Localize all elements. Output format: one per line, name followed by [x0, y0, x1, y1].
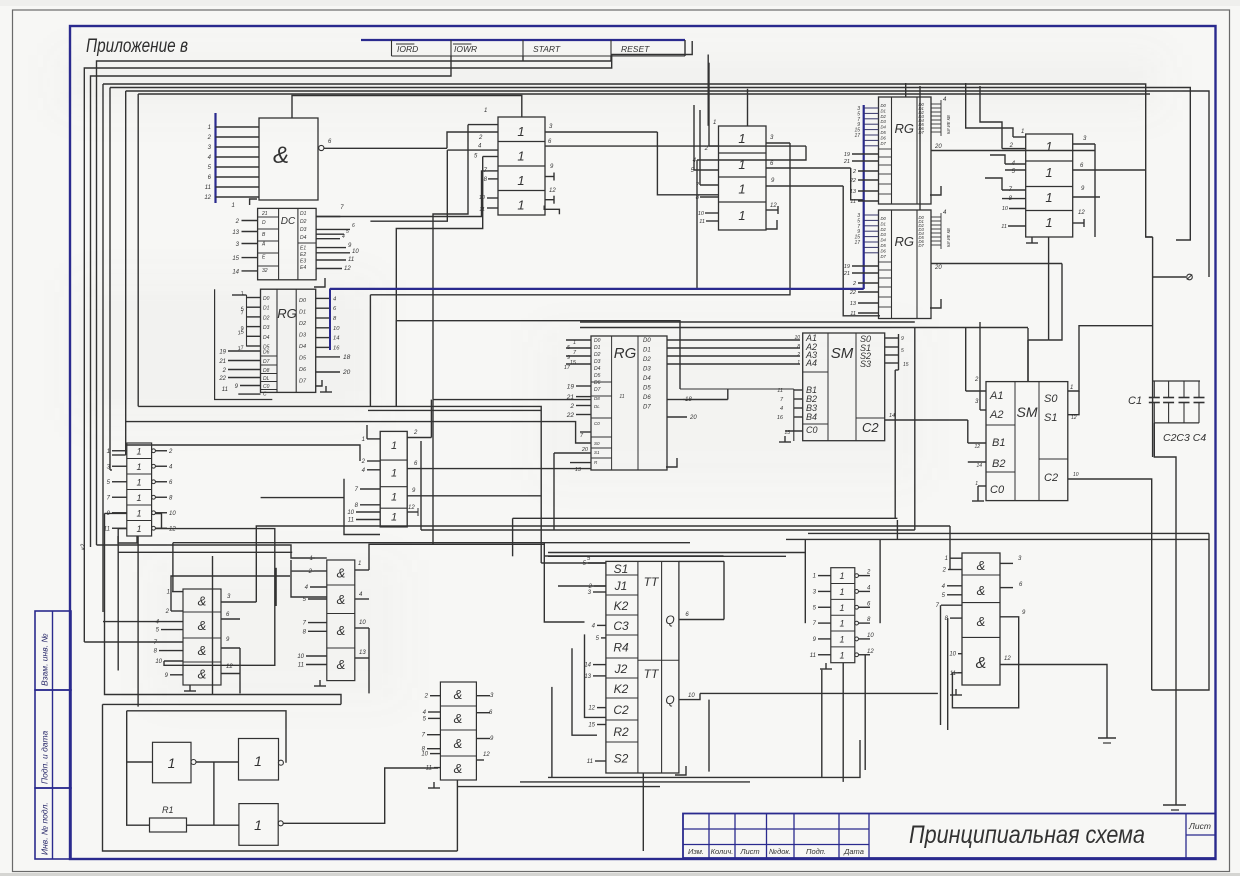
svg-text:RG: RG	[894, 234, 914, 249]
svg-text:&: &	[977, 583, 986, 598]
svg-text:17: 17	[854, 240, 860, 246]
svg-text:15: 15	[903, 362, 909, 368]
svg-text:Q: Q	[665, 693, 674, 707]
svg-text:2: 2	[361, 459, 366, 465]
svg-text:&: &	[337, 623, 346, 638]
svg-text:START: START	[533, 44, 561, 54]
svg-text:21: 21	[843, 271, 850, 277]
svg-text:1: 1	[362, 437, 365, 443]
svg-text:1: 1	[107, 449, 110, 455]
svg-text:E4: E4	[300, 265, 306, 271]
svg-text:2: 2	[413, 430, 418, 436]
svg-text:&: &	[198, 667, 207, 682]
svg-text:SM: SM	[831, 345, 854, 362]
svg-text:B2: B2	[992, 458, 1005, 470]
svg-text:D0: D0	[594, 338, 601, 344]
svg-text:K2: K2	[614, 599, 629, 613]
svg-text:2: 2	[165, 609, 170, 615]
svg-text:D2: D2	[300, 219, 307, 225]
svg-text:C: C	[263, 392, 267, 398]
svg-text:19: 19	[844, 152, 850, 158]
svg-text:12: 12	[344, 266, 351, 272]
svg-text:17: 17	[564, 365, 571, 371]
svg-text:13: 13	[584, 674, 591, 680]
svg-text:20: 20	[581, 447, 589, 453]
svg-text:14: 14	[976, 463, 982, 469]
svg-text:2: 2	[1009, 143, 1014, 149]
svg-text:к2: к2	[81, 543, 87, 550]
svg-text:10: 10	[688, 693, 695, 699]
svg-text:DL: DL	[594, 404, 600, 409]
svg-text:1: 1	[391, 440, 397, 452]
svg-text:1: 1	[839, 619, 844, 629]
svg-text:D8: D8	[594, 396, 600, 401]
svg-text:2: 2	[308, 569, 313, 575]
svg-text:J2: J2	[614, 662, 628, 676]
svg-text:B4: B4	[806, 412, 817, 422]
svg-text:1: 1	[484, 108, 487, 114]
svg-text:D3: D3	[594, 359, 601, 365]
svg-text:1: 1	[517, 198, 524, 213]
svg-text:32: 32	[262, 268, 268, 274]
svg-text:D: D	[262, 220, 266, 226]
svg-text:&: &	[198, 618, 207, 633]
svg-text:D7: D7	[299, 379, 307, 385]
svg-text:D4: D4	[594, 366, 601, 372]
svg-text:D2: D2	[594, 352, 601, 358]
svg-text:D6: D6	[263, 350, 270, 356]
svg-text:1: 1	[945, 556, 948, 562]
svg-text:&: &	[454, 761, 463, 776]
svg-text:D1: D1	[299, 310, 306, 316]
svg-text:2: 2	[424, 694, 429, 700]
svg-text:Приложение в: Приложение в	[86, 36, 188, 57]
svg-text:C0: C0	[990, 484, 1005, 496]
svg-text:2: 2	[796, 352, 800, 358]
svg-text:20: 20	[934, 144, 942, 150]
svg-text:1: 1	[839, 634, 844, 644]
svg-text:D5: D5	[594, 373, 601, 379]
svg-text:&: &	[337, 657, 346, 672]
svg-text:D0: D0	[881, 216, 887, 221]
svg-text:11: 11	[699, 219, 705, 225]
svg-text:D4: D4	[299, 344, 306, 350]
svg-text:D1: D1	[881, 221, 886, 226]
svg-text:TT: TT	[644, 575, 660, 589]
svg-text:1: 1	[839, 603, 844, 613]
svg-text:11: 11	[298, 663, 304, 669]
svg-text:21: 21	[843, 159, 850, 165]
svg-text:D6: D6	[881, 135, 887, 140]
svg-text:1: 1	[797, 360, 800, 366]
svg-text:12: 12	[226, 664, 233, 670]
svg-text:2: 2	[222, 368, 227, 374]
svg-text:1: 1	[136, 462, 141, 472]
svg-text:&: &	[454, 687, 463, 702]
svg-text:D7: D7	[881, 254, 887, 259]
svg-text:18: 18	[343, 354, 351, 361]
svg-text:10: 10	[421, 752, 428, 758]
svg-text:2: 2	[852, 281, 856, 287]
svg-text:1: 1	[1045, 165, 1052, 180]
svg-text:1: 1	[391, 492, 397, 504]
svg-text:D4: D4	[263, 335, 270, 341]
svg-text:16: 16	[333, 345, 340, 351]
svg-text:20: 20	[934, 265, 942, 271]
svg-text:10: 10	[359, 620, 366, 626]
svg-text:№док.: №док.	[769, 847, 791, 856]
svg-text:IORD: IORD	[397, 44, 418, 54]
svg-text:D4: D4	[300, 235, 307, 241]
svg-text:E2: E2	[300, 252, 306, 258]
svg-text:Лист: Лист	[1188, 821, 1211, 831]
svg-text:22: 22	[849, 290, 856, 296]
svg-text:12: 12	[408, 505, 415, 511]
svg-text:A2: A2	[989, 409, 1003, 421]
svg-text:4: 4	[780, 406, 783, 412]
svg-text:10: 10	[297, 654, 304, 660]
svg-text:1: 1	[391, 468, 397, 480]
svg-text:22: 22	[566, 412, 575, 419]
svg-text:1: 1	[232, 203, 235, 209]
svg-text:D2: D2	[263, 315, 270, 321]
svg-text:Подп. и дата: Подп. и дата	[40, 731, 50, 784]
svg-text:11: 11	[587, 759, 593, 765]
svg-text:9: 9	[901, 336, 904, 342]
svg-text:D3: D3	[881, 119, 887, 124]
svg-text:13: 13	[232, 230, 239, 236]
svg-text:D4: D4	[643, 376, 651, 382]
svg-text:D1: D1	[594, 345, 601, 351]
svg-text:R1: R1	[162, 805, 174, 815]
svg-text:Колич.: Колич.	[711, 847, 734, 856]
svg-text:19: 19	[844, 264, 850, 270]
svg-text:12: 12	[549, 188, 556, 194]
svg-text:1: 1	[136, 477, 141, 487]
svg-text:19: 19	[219, 350, 226, 356]
svg-text:17: 17	[854, 133, 860, 139]
svg-text:5: 5	[346, 229, 349, 235]
svg-text:10: 10	[479, 195, 486, 201]
svg-text:1: 1	[813, 574, 816, 580]
svg-text:D6: D6	[299, 367, 307, 373]
svg-text:C2: C2	[613, 703, 629, 717]
svg-text:B1: B1	[992, 437, 1005, 449]
svg-text:E3: E3	[300, 259, 306, 265]
svg-text:E1: E1	[300, 246, 306, 252]
svg-text:1: 1	[738, 131, 745, 146]
svg-text:C0: C0	[806, 425, 818, 435]
svg-text:R2: R2	[613, 725, 629, 739]
svg-text:2: 2	[235, 219, 240, 225]
svg-text:&: &	[977, 614, 986, 629]
svg-text:RG: RG	[277, 306, 297, 321]
svg-text:C1: C1	[1128, 395, 1142, 407]
svg-text:D2: D2	[881, 227, 887, 232]
svg-text:1: 1	[573, 340, 576, 346]
svg-text:C3: C3	[613, 619, 629, 633]
svg-text:RG: RG	[614, 345, 637, 362]
svg-text:20: 20	[342, 369, 351, 376]
svg-text:1: 1	[1021, 129, 1024, 135]
svg-text:13: 13	[784, 430, 790, 436]
svg-text:11: 11	[1001, 224, 1007, 230]
svg-text:10: 10	[169, 511, 176, 517]
svg-text:12: 12	[770, 203, 777, 209]
svg-text:21: 21	[261, 211, 268, 217]
svg-text:&: &	[198, 643, 207, 658]
svg-text:10: 10	[352, 249, 359, 255]
svg-text:Q: Q	[665, 613, 674, 627]
svg-text:1: 1	[167, 590, 170, 596]
svg-text:12: 12	[204, 195, 211, 201]
svg-text:1: 1	[310, 556, 313, 562]
svg-text:Принципиальная схема: Принципиальная схема	[909, 821, 1145, 849]
svg-text:C0: C0	[594, 421, 600, 426]
svg-text:2: 2	[569, 403, 574, 410]
svg-text:6: 6	[352, 223, 355, 229]
svg-text:S1: S1	[1044, 412, 1057, 424]
svg-text:КИ ИЕ КВ: КИ ИЕ КВ	[946, 228, 951, 247]
svg-text:19: 19	[567, 384, 575, 391]
svg-text:A: A	[261, 242, 266, 248]
svg-text:D4: D4	[881, 125, 887, 130]
svg-text:4: 4	[333, 296, 336, 302]
svg-text:5: 5	[901, 348, 904, 354]
svg-text:10: 10	[155, 659, 162, 665]
svg-text:DC: DC	[281, 216, 296, 227]
svg-text:TT: TT	[644, 667, 660, 681]
svg-text:10: 10	[794, 335, 800, 341]
svg-text:1: 1	[391, 512, 397, 524]
svg-text:D3: D3	[643, 367, 651, 373]
svg-text:11: 11	[205, 185, 211, 191]
svg-text:15: 15	[570, 360, 577, 366]
svg-text:Дата: Дата	[843, 847, 864, 856]
svg-text:D5: D5	[881, 130, 887, 135]
svg-text:1: 1	[1070, 385, 1073, 391]
svg-text:1: 1	[517, 149, 524, 164]
svg-text:D1: D1	[263, 306, 270, 312]
svg-text:Подп.: Подп.	[806, 847, 826, 856]
svg-text:16: 16	[777, 415, 784, 421]
svg-text:S2: S2	[614, 752, 629, 766]
svg-text:11: 11	[850, 311, 856, 317]
svg-text:D1: D1	[300, 211, 307, 217]
svg-text:Инв. № подл.: Инв. № подл.	[40, 802, 50, 855]
svg-text:1: 1	[1045, 215, 1052, 230]
svg-text:D3: D3	[300, 227, 307, 233]
svg-text:D7: D7	[594, 387, 601, 393]
svg-text:D7: D7	[919, 243, 925, 248]
svg-text:22: 22	[218, 376, 226, 382]
svg-text:D3: D3	[263, 325, 270, 331]
svg-text:11: 11	[950, 671, 956, 677]
svg-text:S3: S3	[860, 359, 871, 369]
svg-text:D2: D2	[881, 114, 887, 119]
svg-text:1: 1	[713, 120, 716, 126]
svg-text:14: 14	[333, 336, 339, 342]
svg-text:S0: S0	[594, 441, 600, 446]
svg-text:D0: D0	[299, 298, 307, 304]
svg-text:12: 12	[974, 444, 980, 450]
svg-text:13: 13	[850, 189, 857, 195]
svg-text:14: 14	[232, 269, 239, 275]
svg-text:1: 1	[738, 208, 745, 223]
svg-text:RESET: RESET	[621, 44, 650, 54]
svg-text:20: 20	[689, 415, 697, 421]
svg-text:D1: D1	[881, 108, 886, 113]
svg-text:2: 2	[852, 169, 856, 175]
svg-text:4: 4	[342, 234, 345, 240]
svg-text:1: 1	[136, 493, 141, 503]
svg-text:10: 10	[333, 326, 340, 332]
svg-text:SM: SM	[1017, 404, 1038, 420]
svg-text:S1: S1	[594, 450, 600, 455]
svg-text:15: 15	[232, 256, 239, 262]
svg-text:13: 13	[850, 301, 857, 307]
svg-text:15: 15	[588, 723, 595, 729]
svg-text:1: 1	[517, 124, 524, 139]
svg-text:11: 11	[850, 199, 856, 205]
svg-text:14: 14	[584, 663, 591, 669]
svg-text:Изм.: Изм.	[688, 847, 704, 856]
svg-text:12: 12	[867, 649, 874, 655]
svg-text:D3: D3	[881, 232, 887, 237]
svg-text:2: 2	[168, 449, 173, 455]
svg-text:1: 1	[839, 571, 844, 581]
svg-text:D6: D6	[643, 395, 651, 401]
svg-text:10: 10	[949, 652, 956, 658]
svg-text:D2: D2	[643, 357, 651, 363]
svg-text:10: 10	[867, 633, 874, 639]
svg-text:IOWR: IOWR	[454, 44, 477, 54]
svg-text:C2: C2	[1044, 472, 1058, 484]
svg-text:10: 10	[1073, 472, 1079, 478]
svg-text:11: 11	[619, 394, 624, 400]
svg-text:&: &	[976, 655, 987, 672]
svg-text:&: &	[273, 142, 289, 169]
svg-text:D7: D7	[643, 405, 651, 411]
svg-text:D7: D7	[881, 141, 887, 146]
svg-text:RG: RG	[894, 121, 914, 136]
svg-text:&: &	[977, 558, 986, 573]
svg-text:2: 2	[974, 377, 979, 383]
svg-text:1: 1	[517, 173, 524, 188]
svg-text:10: 10	[698, 211, 705, 217]
svg-text:2: 2	[942, 568, 947, 574]
svg-text:1: 1	[1045, 139, 1052, 154]
svg-text:D5: D5	[643, 386, 651, 392]
svg-text:C2: C2	[862, 420, 879, 435]
svg-text:С2С3 С4: С2С3 С4	[1163, 432, 1206, 444]
svg-text:D2: D2	[299, 321, 306, 327]
svg-text:&: &	[337, 566, 346, 581]
svg-text:Взам. инв. №: Взам. инв. №	[40, 633, 50, 686]
svg-text:&: &	[454, 711, 463, 726]
svg-text:1: 1	[168, 755, 176, 771]
svg-text:8: 8	[797, 344, 800, 350]
svg-text:1: 1	[254, 817, 262, 833]
svg-text:11: 11	[348, 518, 354, 524]
svg-text:D0: D0	[643, 338, 651, 344]
svg-text:&: &	[198, 594, 207, 609]
svg-text:1: 1	[839, 587, 844, 597]
svg-text:12: 12	[1071, 415, 1077, 421]
svg-text:1: 1	[1045, 190, 1052, 205]
svg-text:14: 14	[889, 413, 895, 419]
svg-text:D4: D4	[881, 238, 887, 243]
svg-text:2: 2	[866, 570, 871, 576]
svg-text:13: 13	[359, 650, 366, 656]
svg-text:K2: K2	[614, 682, 629, 696]
svg-text:11: 11	[348, 257, 354, 263]
svg-text:D6: D6	[881, 248, 887, 253]
svg-text:D7: D7	[263, 359, 270, 365]
svg-text:1: 1	[136, 446, 141, 456]
svg-text:S1: S1	[614, 562, 629, 576]
svg-text:&: &	[454, 736, 463, 751]
svg-text:12: 12	[1004, 656, 1011, 662]
svg-text:D5: D5	[299, 356, 307, 362]
svg-text:D1: D1	[643, 348, 651, 354]
svg-text:10: 10	[1002, 206, 1009, 212]
svg-text:J1: J1	[614, 579, 628, 593]
svg-text:D3: D3	[299, 333, 307, 339]
svg-text:D6: D6	[594, 380, 601, 386]
svg-text:Лист: Лист	[739, 847, 759, 856]
svg-text:2: 2	[478, 135, 483, 141]
svg-text:2: 2	[704, 146, 709, 152]
svg-text:1: 1	[839, 650, 844, 660]
svg-text:12: 12	[483, 752, 490, 758]
svg-text:&: &	[337, 592, 346, 607]
svg-text:1: 1	[358, 561, 361, 567]
svg-text:D0: D0	[263, 296, 270, 302]
svg-text:1: 1	[208, 125, 211, 131]
svg-text:11: 11	[222, 387, 228, 393]
svg-text:1: 1	[254, 753, 262, 769]
svg-text:A1: A1	[989, 390, 1003, 402]
svg-text:1: 1	[136, 524, 141, 534]
svg-text:1: 1	[738, 182, 745, 197]
svg-text:22: 22	[849, 178, 856, 184]
svg-text:1: 1	[738, 157, 745, 172]
svg-text:D0: D0	[881, 103, 887, 108]
svg-text:D5: D5	[881, 243, 887, 248]
svg-text:12: 12	[588, 706, 595, 712]
svg-text:2: 2	[207, 135, 212, 141]
svg-text:КИ ИЕ КВ: КИ ИЕ КВ	[946, 115, 951, 134]
svg-text:11: 11	[810, 653, 816, 659]
svg-text:R4: R4	[613, 641, 629, 655]
svg-text:1: 1	[136, 508, 141, 518]
svg-text:10: 10	[347, 510, 354, 516]
svg-text:A4: A4	[805, 358, 817, 368]
svg-text:S0: S0	[1044, 393, 1058, 405]
svg-text:21: 21	[218, 359, 226, 365]
svg-text:12: 12	[1078, 210, 1085, 216]
